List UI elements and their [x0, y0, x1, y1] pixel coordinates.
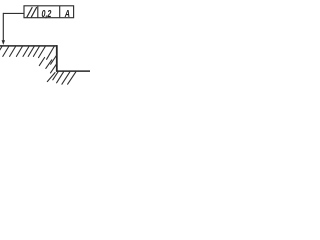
leader line horizontal [3, 12, 24, 14]
leader line vertical [2, 13, 4, 41]
frame divider 1 [37, 6, 39, 18]
leader arrowhead [2, 40, 5, 45]
section hatching lower band [53, 72, 76, 84]
svg-text:A: A [64, 9, 70, 20]
part step edge line [56, 45, 58, 71]
part lower surface line [56, 70, 90, 72]
frame divider 2 [59, 6, 61, 18]
section hatching step band [39, 56, 56, 82]
part top surface line [0, 45, 58, 47]
parallelism symbol [27, 8, 37, 17]
feature control frame outline [24, 6, 74, 18]
section hatching upper band [0, 46, 54, 59]
svg-text:0,2: 0,2 [42, 9, 52, 20]
